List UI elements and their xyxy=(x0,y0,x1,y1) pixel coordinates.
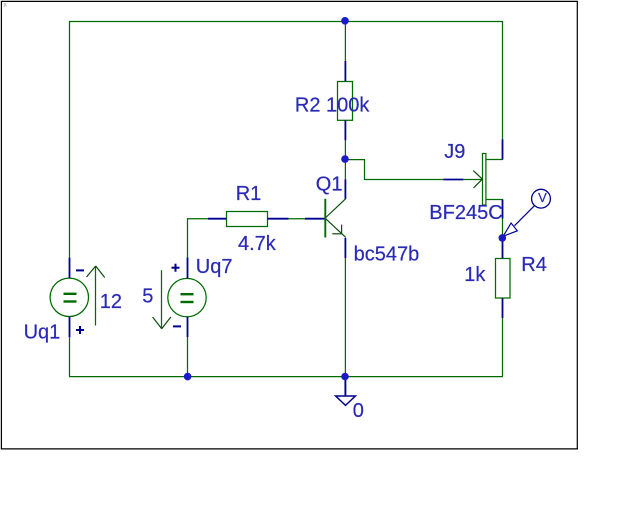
wire left rail xyxy=(69,21,71,258)
node ground junction xyxy=(341,373,349,381)
resistor R2 body xyxy=(338,82,353,121)
svg-text:1k: 1k xyxy=(464,264,486,286)
svg-text:R2 100k: R2 100k xyxy=(295,94,370,116)
wire Uq1 bottom xyxy=(69,337,71,376)
pin J9 source xyxy=(502,200,504,219)
Uq7 voltage arrow xyxy=(153,270,171,329)
wire J9 source to node xyxy=(502,219,504,236)
wire Q1 emitter to bottom rail xyxy=(344,258,346,376)
corner artifact mark xyxy=(4,3,7,7)
wire Uq7 top xyxy=(187,218,189,257)
node top junction xyxy=(341,17,349,25)
pin R4 bottom xyxy=(502,298,504,318)
wire R2 bottom to node xyxy=(344,140,346,159)
Uq1 voltage arrow xyxy=(87,266,105,326)
svg-text:R1: R1 xyxy=(236,183,262,205)
pin R2 bottom xyxy=(344,120,346,140)
pin Uq1 bottom xyxy=(69,317,71,338)
pin R1 right xyxy=(267,218,288,220)
wire bottom rail xyxy=(69,376,503,378)
pin J9 gate xyxy=(443,179,463,181)
pin Uq1 top xyxy=(69,258,71,278)
Uq1 plus sign xyxy=(76,326,84,334)
svg-text:Uq7: Uq7 xyxy=(196,256,233,278)
node Uq7 bottom junction xyxy=(184,373,192,381)
resistor R1 body xyxy=(227,212,268,227)
pin R4 top xyxy=(502,238,504,258)
wire R2 top xyxy=(344,21,346,61)
node J9 source / R4 / voltmeter junction xyxy=(499,234,507,242)
pin Q1 collector xyxy=(344,179,346,199)
voltage source Uq1 xyxy=(50,278,88,316)
wire Uq7 bottom xyxy=(187,337,189,377)
svg-text:Q1: Q1 xyxy=(316,174,343,196)
wire right rail to J9 drain xyxy=(502,21,504,139)
transistor J9 JFET xyxy=(463,154,503,206)
Uq7 minus sign xyxy=(173,325,181,327)
voltage source Uq7 xyxy=(168,278,206,316)
pin Uq7 bottom xyxy=(187,317,189,337)
svg-text:0: 0 xyxy=(353,400,364,422)
svg-text:12: 12 xyxy=(100,291,122,313)
Uq7 plus sign xyxy=(172,264,180,272)
svg-text:Uq1: Uq1 xyxy=(24,322,61,344)
node R2/Q1/J9 junction xyxy=(341,155,349,163)
svg-text:4.7k: 4.7k xyxy=(238,233,277,255)
svg-text:J9: J9 xyxy=(444,141,465,163)
voltmeter V xyxy=(503,189,550,236)
wire Q1 collector xyxy=(344,159,346,179)
pin R2 top xyxy=(344,61,346,81)
svg-text:V: V xyxy=(538,190,547,205)
pin Uq7 top xyxy=(187,257,189,278)
schematic border frame xyxy=(1,1,578,449)
transistor Q1 xyxy=(325,199,346,238)
Uq1 minus sign xyxy=(76,269,84,271)
svg-text:bc547b: bc547b xyxy=(354,243,420,265)
svg-text:BF245C: BF245C xyxy=(429,202,502,224)
pin J9 drain xyxy=(502,139,504,159)
pin R1 left xyxy=(208,218,226,220)
wire top rail xyxy=(69,21,503,23)
wire R1 to Q1 base xyxy=(289,218,306,220)
wire R1 left xyxy=(187,218,208,220)
resistor R4 body xyxy=(496,259,511,299)
pin Q1 base xyxy=(305,218,325,220)
ground xyxy=(336,377,356,406)
pin Q1 emitter xyxy=(344,238,346,258)
wire node to J9 gate xyxy=(345,160,443,180)
wire R4 bottom to bottom rail xyxy=(502,318,504,377)
svg-text:R4: R4 xyxy=(521,254,547,276)
svg-text:5: 5 xyxy=(142,285,153,307)
